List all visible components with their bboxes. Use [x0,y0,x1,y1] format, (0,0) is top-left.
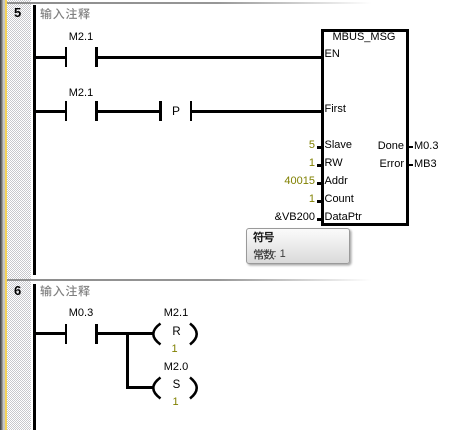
pin EN [325,49,340,60]
output M0.3 [414,141,438,152]
coil S (M2.0 set) [142,374,204,401]
tick RW [317,164,321,167]
rung wire: rail to contact M0.3 [36,332,65,335]
wire: contact M0.3 to branch [98,332,129,335]
value &VB200 for DataPtr [237,212,315,223]
network 5 left power rail [33,5,36,275]
rung 1 wire: rail to contact M2.1 [36,56,65,59]
tick Done [409,146,413,148]
instruction box MBUS_MSG U1 [321,29,409,226]
network 6 left power rail [33,284,36,430]
pin DataPtr [325,212,362,223]
contact M2.1 (rung 2) [65,101,68,121]
tooltip title 符号 [253,231,274,242]
comment 输入注释 (network 6) [40,285,89,296]
left edge frame [0,0,1,430]
tick Addr [317,182,321,185]
tick Error [409,164,413,166]
pin First [325,104,346,115]
comment 输入注释 (network 5) [40,8,89,19]
value 1 (coil S) [163,397,188,408]
label M2.1 (coil R) [164,308,189,319]
tooltip text ": 1" [274,249,286,260]
tooltip text 常数 [254,249,275,260]
positive edge contact P [159,101,162,121]
label M2.0 (coil S) [164,362,189,373]
contact M0.3 [65,324,68,344]
label M2.1 (rung 2) [68,88,94,99]
pin Error [340,159,404,170]
coil R (M2.1 reset) [142,320,204,347]
box title MBUS_MSG [324,32,404,43]
contact M2.1 (rung 1) [65,47,68,67]
pin RW [325,158,343,169]
tick DataPtr [317,218,321,221]
wire: P contact to First [192,110,321,113]
value 1 for RW [237,158,315,169]
dithered network gutter [7,0,31,430]
wire: branch to coil R [129,332,153,335]
tick Count [317,200,321,203]
branch vertical wire [126,332,129,389]
pin Slave [325,140,353,151]
output MB3 [414,159,437,170]
label M2.1 (rung 1) [68,32,94,43]
network 6 separator [7,279,474,281]
pin Done [340,141,404,152]
network number 6 [14,284,21,297]
value 1 for Count [237,194,315,205]
value 5 for Slave [237,140,315,151]
network 5 top separator [7,2,474,4]
wire: branch to coil S [129,386,153,389]
value 40015 for Addr [237,176,315,187]
network number 5 [14,6,21,19]
rung 2 wire: rail to contact M2.1 [36,110,65,113]
yellow margin strip [5,0,8,430]
value 1 (coil R) [162,344,187,355]
tooltip 符号/常数 [246,228,350,264]
wire: contact M2.1 to EN [98,56,321,59]
wire: contact to P contact [98,110,160,113]
tick Slave [317,146,321,149]
pin Addr [325,176,348,187]
pin Count [325,194,354,205]
label M0.3 [68,308,94,319]
